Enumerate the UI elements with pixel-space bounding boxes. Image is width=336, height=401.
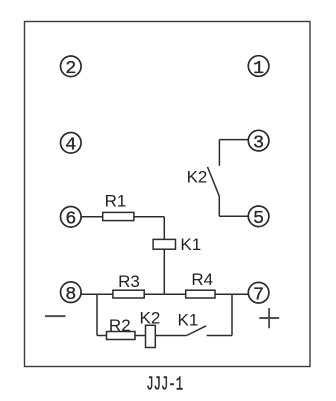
svg-text:1: 1 [253,58,264,79]
relay coil K1 [153,239,175,249]
wire junction down left branch [96,294,98,335]
wire corner down to contact K2 [218,140,220,166]
wire corner up to bus [231,294,233,335]
relay coil K2 [146,325,156,347]
resistor R1 [103,212,134,220]
svg-text:R1: R1 [105,192,127,211]
wire junction to R2 [97,335,107,337]
wire K1 coil to bus [163,249,165,294]
wire corner down to K1 coil [163,217,165,240]
svg-text:3: 3 [253,132,264,153]
wire R2 to K2 coil [135,335,146,337]
svg-text:K1: K1 [178,311,199,330]
svg-text:R2: R2 [109,316,131,335]
component labels [105,167,213,335]
wire contact K1 to corner [207,335,232,337]
svg-text:JJJ-1: JJJ-1 [146,374,183,396]
svg-text:7: 7 [253,284,264,305]
wire to terminal5 [219,215,248,217]
node 2 circle [61,56,82,77]
node 1 circle [248,56,269,77]
node 5 circle [248,206,269,227]
wire R4 to terminal7 [215,293,248,295]
svg-text:K2: K2 [187,167,208,186]
resistor R2 [107,332,136,340]
svg-text:8: 8 [65,284,76,305]
svg-text:2: 2 [65,58,76,79]
node 3 circle [248,130,269,151]
polarity plus [259,308,279,328]
wire contact K2 down [218,196,220,216]
node 8 circle [61,282,82,303]
resistor R3 [113,290,144,298]
border frame [25,22,311,367]
contact K1 blade [187,326,207,336]
wire terminal8 to junction [81,293,113,295]
node 7 circle [248,282,269,303]
svg-text:5: 5 [253,208,264,229]
svg-text:K1: K1 [180,235,201,254]
wire R3 to R4 [144,293,186,295]
terminal circles [61,56,269,303]
svg-text:R3: R3 [118,272,140,291]
resistor R4 [186,290,215,298]
wire R1 to corner [134,216,164,218]
contact K2 blade [208,167,220,196]
wire K2 coil to contact K1 [155,335,186,337]
node 4 circle [61,133,82,154]
svg-text:R4: R4 [191,270,213,289]
wire terminal3 to corner [219,139,248,141]
terminal digits [65,58,264,306]
polarity minus [45,315,65,317]
svg-text:K2: K2 [140,308,161,327]
node 6 circle [61,207,82,228]
svg-text:4: 4 [65,135,76,156]
wire terminal6 to R1 [81,216,103,218]
svg-text:6: 6 [65,209,76,230]
